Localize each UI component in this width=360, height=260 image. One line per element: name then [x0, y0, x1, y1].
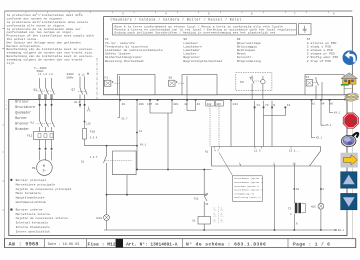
svg-text:N: N [296, 223, 298, 226]
svg-text:Brander: Brander [15, 127, 29, 131]
svg-text:T2: T2 [288, 208, 292, 211]
svg-text:F12: F12 [194, 198, 199, 201]
svg-text:Hoofdaansluitblok: Hoofdaansluitblok [16, 200, 47, 204]
svg-text:Q7: Q7 [72, 89, 76, 92]
svg-text:Raccordement (option 7): Raccordement (option 7) [234, 177, 263, 180]
svg-text:Ontgrendeling: Ontgrendeling [237, 59, 261, 63]
svg-text:H5.1: H5.1 [326, 124, 333, 127]
svg-text:Morsettiera interna: Morsettiera interna [16, 212, 50, 216]
svg-text:S7: S7 [306, 75, 310, 79]
svg-text:Interne Klemmleiste: Interne Klemmleiste [16, 225, 50, 229]
svg-text:8: 8 [333, 13, 335, 16]
svg-text:401: 401 [173, 103, 178, 106]
svg-text:74: 74 [256, 104, 260, 107]
svg-text:K4.1: K4.1 [334, 112, 341, 115]
svg-text:134: 134 [233, 103, 238, 106]
svg-text:E4.1: E4.1 [140, 143, 147, 146]
svg-text:8: 8 [323, 188, 325, 191]
svg-text:40 A: 40 A [74, 101, 81, 104]
svg-text:95: 95 [206, 193, 209, 196]
svg-text:11 3: 11 3 [254, 150, 261, 153]
svg-text:Aansluiting (optie 7): Aansluiting (optie 7) [234, 196, 260, 199]
svg-text:Brûleur: Brûleur [15, 100, 29, 104]
svg-text:3~: 3~ [43, 169, 47, 173]
svg-text:Erdung nach örtlichen Vorschri: Erdung nach örtlichen Vorschriften / Aar… [115, 30, 276, 34]
svg-text:S6: S6 [169, 76, 173, 80]
svg-text:Cajetín de conexiones principa: Cajetín de conexiones principal [16, 187, 72, 191]
svg-text:K5.1: K5.1 [316, 137, 323, 140]
svg-text:Fisa : M12: Fisa : M12 [88, 242, 116, 248]
svg-text:Brenner: Brenner [15, 122, 29, 126]
svg-text:Main terminals: Main terminals [16, 191, 41, 195]
svg-text:403: 403 [216, 103, 221, 106]
svg-text:7: 7 [294, 13, 296, 16]
svg-text:41: 41 [155, 103, 159, 106]
svg-text:L1 L2 L3: L1 L2 L3 [38, 73, 53, 76]
svg-text:4 7: 4 7 [214, 150, 219, 153]
svg-text:13: 13 [287, 104, 291, 107]
svg-text:A1: A1 [205, 151, 209, 154]
svg-text:6: 6 [251, 13, 253, 16]
svg-text:4: 4 [165, 13, 167, 16]
svg-text:402: 402 [207, 103, 212, 106]
svg-text:Burner: Burner [15, 116, 27, 120]
svg-text:96: 96 [206, 203, 209, 206]
svg-text:1: 1 [6, 100, 8, 103]
svg-text:196: 196 [139, 103, 144, 106]
svg-text:Morsettiera principale: Morsettiera principale [16, 182, 56, 186]
svg-text:zijn.: zijn. [7, 61, 16, 65]
svg-text:Hauptklemmleiste: Hauptklemmleiste [16, 196, 45, 200]
svg-text:5: 5 [208, 13, 210, 16]
svg-text:stemming volgens de normen die: stemming volgens de normen die van krach… [7, 57, 83, 61]
svg-text:N° de schéma : 683.1.D306: N° de schéma : 683.1.D306 [186, 242, 266, 248]
svg-text:S3: S3 [240, 80, 244, 84]
svg-text:6.3 A: 6.3 A [90, 137, 98, 140]
svg-text:3: 3 [6, 108, 8, 111]
svg-text:d: d [290, 213, 292, 216]
svg-text:81: 81 [312, 103, 316, 106]
svg-text:Art. N°: 13014091-A: Art. N°: 13014091-A [126, 242, 178, 248]
svg-text:Chaudière / Caldaia / Caldera: Chaudière / Caldaia / Caldera / Boiler /… [111, 18, 242, 23]
svg-text:Intern aansluitblok: Intern aansluitblok [16, 229, 50, 233]
svg-text:Q1: Q1 [34, 89, 38, 92]
svg-text:M1: M1 [32, 167, 36, 170]
svg-text:Bornier interne: Bornier interne [16, 207, 43, 211]
svg-text:Verkoppeling (7): Verkoppeling (7) [234, 192, 254, 195]
svg-text:14: 14 [139, 130, 143, 133]
svg-text:F1: F1 [104, 76, 108, 80]
svg-text:S1: S1 [81, 161, 85, 164]
svg-text:73: 73 [265, 104, 269, 107]
svg-text:H10: H10 [97, 217, 103, 220]
svg-text:Cajetín de conexiones interno: Cajetín de conexiones interno [16, 216, 68, 220]
svg-text:N: N [273, 104, 275, 107]
svg-text:Internal terminals: Internal terminals [16, 221, 49, 225]
svg-text:Page : 1 / 6: Page : 1 / 6 [293, 242, 330, 248]
svg-text:N L1: N L1 [79, 74, 86, 77]
svg-text:Bruciatore: Bruciatore [15, 105, 35, 109]
svg-text:2 trap of PID: 2 trap of PID [307, 59, 331, 63]
svg-text:Begrenzingthermostaat: Begrenzingthermostaat [183, 59, 222, 63]
svg-text:2: 2 [6, 104, 8, 107]
svg-text:86: 86 [330, 103, 334, 106]
svg-text:10: 10 [296, 188, 300, 191]
svg-text:F12: F12 [27, 135, 33, 138]
svg-text:Racordado (opción 7): Racordado (opción 7) [234, 185, 259, 188]
svg-text:Beveiling thermostaat: Beveiling thermostaat [105, 59, 144, 63]
svg-text:B1.1: B1.1 [338, 229, 345, 232]
svg-text:1 0 T: 1 0 T [90, 156, 98, 159]
svg-text:Am : 9968: Am : 9968 [9, 242, 39, 248]
svg-text:15.1...: 15.1... [289, 150, 300, 153]
svg-text:Quemador: Quemador [15, 111, 31, 115]
svg-text:40: 40 [122, 103, 126, 106]
svg-text:K1: K1 [31, 122, 35, 125]
svg-text:F10: F10 [90, 131, 96, 134]
svg-text:43: 43 [197, 103, 201, 106]
svg-text:3: 3 [122, 13, 124, 16]
svg-text:Raccordement (option 7): Raccordement (option 7) [234, 189, 263, 192]
svg-text:K1: K1 [193, 220, 197, 223]
svg-text:Date : 16.06.03: Date : 16.06.03 [48, 243, 80, 247]
svg-text:Bornier principal: Bornier principal [16, 178, 47, 182]
svg-text:H15: H15 [311, 206, 316, 209]
svg-text:02.7: 02.7 [122, 118, 129, 121]
svg-text:STOP: STOP [344, 118, 357, 124]
svg-text:Raccordement (option 7): Raccordement (option 7) [234, 181, 263, 184]
svg-text:L10: L10 [86, 123, 91, 126]
svg-text:84: 84 [321, 103, 325, 106]
svg-text:50Hz: 50Hz [67, 77, 74, 80]
